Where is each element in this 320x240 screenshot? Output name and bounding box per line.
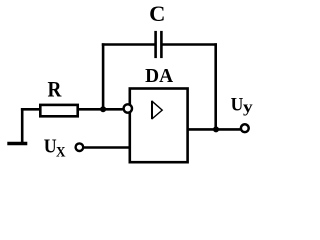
svg-text:C: C [149,1,165,26]
output terminal Uy [241,124,249,132]
resistor R [40,105,77,116]
wire feedback top horizontal right of capacitor [161,43,217,46]
svg-text:X: X [56,144,66,160]
input terminal UX [76,143,84,151]
svg-text:U: U [44,136,57,158]
junction node at inverting input [100,106,106,112]
wire from UX terminal to op-amp [83,146,129,149]
svg-text:DA: DA [145,65,173,87]
capacitor C [156,31,162,58]
junction node at output [213,126,219,132]
wire feedback top horizontal left of capacitor [102,43,156,46]
ground [7,108,27,144]
svg-text:U: U [231,95,244,116]
svg-text:R: R [48,77,63,102]
wire output from op-amp to junction [189,128,217,131]
wire output from junction to Uy terminal [216,128,241,131]
svg-text:y: y [243,99,253,116]
wire input horizontal from ground corner to resistor [21,108,40,111]
wire input horizontal from resistor to op-amp [79,108,123,111]
wire feedback right vertical drop [214,43,217,129]
op-amp DA [130,89,188,163]
inverting input circle [124,104,132,112]
wire feedback left vertical drop [102,43,105,109]
